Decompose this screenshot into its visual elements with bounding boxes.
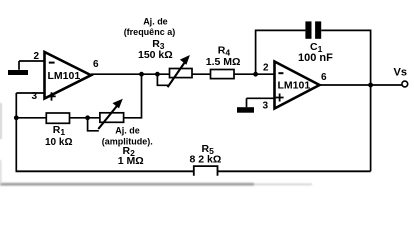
wire: U2 output to Vs bbox=[320, 84, 403, 86]
node: R2 branch on output row bbox=[139, 72, 144, 77]
svg-text:3: 3 bbox=[263, 101, 269, 112]
svg-text:100 nF: 100 nF bbox=[298, 52, 333, 64]
node: output/feedback/R5 junction bbox=[368, 83, 373, 88]
wire: R2 wiper tie bbox=[88, 118, 99, 131]
capacitor C1 bbox=[305, 21, 321, 38]
svg-text:Aj. de: Aj. de bbox=[115, 126, 140, 136]
svg-text:6: 6 bbox=[321, 72, 327, 83]
node: feedback junction at U2 pin 2 bbox=[253, 72, 258, 77]
svg-text:(frequênc a): (frequênc a) bbox=[124, 27, 176, 37]
wire: right vertical down to bottom rail bbox=[370, 85, 372, 171]
wire: R2 right end up to output row bbox=[124, 74, 142, 118]
scan artifact: bottom smudge bbox=[0, 183, 312, 186]
wire: op-amp U1 pin 2 input bbox=[19, 60, 45, 62]
svg-text:8 2 kΩ: 8 2 kΩ bbox=[190, 153, 222, 165]
wire: R4 to U2 pin 2 bbox=[234, 73, 275, 75]
svg-text:1 MΩ: 1 MΩ bbox=[118, 155, 144, 167]
wire: U1 output row bbox=[91, 73, 170, 75]
wire: R3 to R4 bbox=[192, 73, 211, 75]
op-amp U2 LM101 bbox=[275, 62, 320, 109]
svg-text:Aj. de: Aj. de bbox=[143, 16, 168, 26]
wire: R1 row bbox=[16, 117, 46, 119]
node: R1/R2 wiper junction bbox=[85, 115, 90, 120]
wire: bottom rail left segment bbox=[16, 170, 194, 172]
svg-text:2: 2 bbox=[263, 63, 269, 74]
ground (U1 pin 2) bbox=[8, 61, 28, 75]
wire: R3 wiper tie bbox=[157, 74, 168, 85]
resistor R4 bbox=[211, 70, 235, 79]
potentiometer R2 arrow bbox=[98, 99, 123, 129]
node: junction left rail / R1 row bbox=[14, 115, 19, 120]
svg-text:6: 6 bbox=[93, 59, 99, 70]
wire: R1 to R2 bbox=[70, 117, 100, 119]
svg-text:3: 3 bbox=[32, 91, 38, 102]
potentiometer R3 arrow bbox=[168, 55, 190, 87]
potentiometer R2 body bbox=[100, 113, 124, 123]
wire: bottom rail right segment bbox=[218, 170, 371, 172]
resistor R1 bbox=[46, 113, 69, 123]
svg-text:LM101: LM101 bbox=[278, 80, 311, 92]
resistor R5 (staple) bbox=[194, 166, 218, 176]
svg-text:Vs: Vs bbox=[394, 67, 407, 79]
wire: op-amp U1 pin 3 input bbox=[16, 92, 44, 94]
svg-text:2: 2 bbox=[34, 51, 40, 62]
svg-text:150 kΩ: 150 kΩ bbox=[138, 49, 173, 61]
ground (U2 pin 3) bbox=[237, 98, 254, 112]
op-amp U1 LM101 bbox=[45, 52, 92, 101]
wire: C1 feedback loop bbox=[256, 30, 371, 85]
svg-text:LM101: LM101 bbox=[48, 70, 81, 82]
wire: U2 pin 3 input bbox=[247, 97, 275, 99]
wire: left vertical rail (pin3 down to bottom rail) bbox=[15, 93, 17, 171]
scan artifact: left edge bbox=[0, 103, 2, 185]
svg-text:1.5 MΩ: 1.5 MΩ bbox=[206, 56, 241, 68]
svg-text:10 kΩ: 10 kΩ bbox=[45, 137, 72, 148]
node: R3 wiper tie on output row bbox=[155, 72, 160, 77]
terminal Vs bbox=[402, 81, 408, 87]
potentiometer R3 body bbox=[170, 69, 193, 78]
